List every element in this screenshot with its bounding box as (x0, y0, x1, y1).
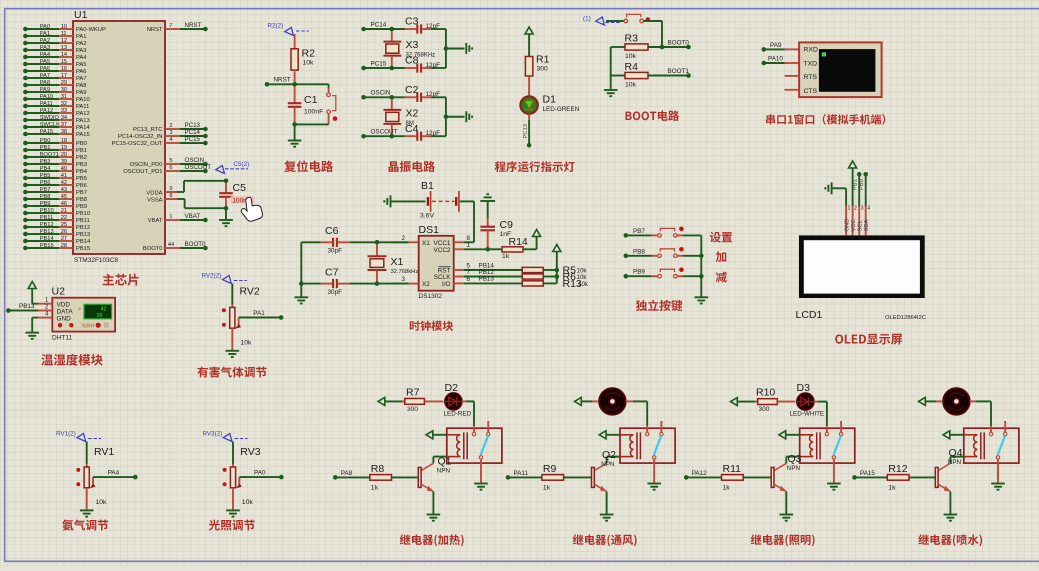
resistor R9 1k (506, 463, 592, 492)
svg-text:R4: R4 (625, 61, 639, 73)
svg-text:PA4: PA4 (108, 470, 120, 477)
svg-text:9: 9 (169, 186, 172, 192)
svg-text:PA15: PA15 (40, 129, 54, 135)
svg-text:X2: X2 (406, 107, 419, 119)
capacitor C2 12pF (405, 84, 446, 102)
relay contact pins (825, 421, 843, 483)
svg-text:RV3: RV3 (240, 446, 260, 458)
wire motor to relay 4 (970, 401, 991, 425)
crystal X3 32.768KHz (383, 31, 435, 68)
main chip title (103, 274, 139, 286)
U1 left pin 38 (PA15) (23, 129, 90, 138)
svg-text:PA12: PA12 (76, 111, 90, 117)
svg-text:VBAT: VBAT (185, 213, 201, 220)
svg-text:PB11: PB11 (40, 215, 54, 221)
svg-text:RV2(2): RV2(2) (202, 273, 222, 280)
pull-up rail power terminal (553, 245, 561, 284)
svg-text:10k: 10k (303, 60, 315, 67)
svg-text:C9: C9 (500, 219, 514, 231)
svg-text:PA12: PA12 (692, 470, 707, 477)
relay switch contact (481, 436, 488, 455)
virtual terminal serial window (785, 42, 882, 97)
svg-text:SWCLK: SWCLK (40, 122, 60, 128)
svg-text:PA10: PA10 (40, 94, 54, 100)
run indicator title (495, 161, 575, 172)
svg-text:PB13: PB13 (479, 276, 495, 283)
svg-text:NPN: NPN (787, 465, 801, 472)
svg-text:PB1: PB1 (852, 179, 858, 190)
U1 pin 9 VDDA wire (146, 181, 226, 197)
DHT11 module title (41, 354, 102, 366)
resistor R5 10k (522, 265, 587, 277)
label plus key (716, 251, 727, 262)
svg-text:PB0: PB0 (859, 179, 865, 190)
U2 pin 1 VDD with power terminal (28, 282, 52, 304)
svg-text:22: 22 (61, 215, 67, 221)
svg-text:12pF: 12pF (426, 130, 441, 137)
ground under RV2 (226, 351, 240, 357)
relay contact pins (472, 421, 490, 483)
svg-text:31: 31 (61, 94, 67, 100)
U1 left pin 26 (PB13) (23, 229, 90, 238)
svg-text:SWDIO: SWDIO (40, 115, 60, 121)
DS1 pin 2 X1 (392, 235, 419, 242)
svg-text:PB14: PB14 (76, 239, 91, 245)
svg-text:3: 3 (169, 130, 172, 136)
svg-text:PB6: PB6 (40, 180, 51, 186)
U1 right pin 3 (PC14-OSC32_IN) (118, 129, 208, 140)
svg-text:PC13: PC13 (523, 124, 529, 139)
svg-text:PB0: PB0 (76, 141, 87, 147)
U1 left pin 15 (PA5) (23, 59, 86, 68)
relay coil box 继电器(通风) (620, 428, 675, 463)
OLED display LCD1 OLED12864I2C (796, 235, 926, 321)
ground under Q3 emitter (780, 515, 794, 521)
svg-text:Q4: Q4 (949, 447, 963, 459)
svg-text:RV2: RV2 (240, 286, 260, 298)
OLED SDA pin wire net PB0 (859, 172, 870, 235)
svg-text:OSCOUT: OSCOUT (185, 164, 212, 171)
svg-text:33: 33 (61, 108, 67, 114)
svg-text:5: 5 (169, 158, 172, 164)
svg-text:PA6: PA6 (76, 69, 87, 75)
svg-text:C4: C4 (405, 123, 419, 135)
svg-text:PB13: PB13 (76, 232, 90, 238)
svg-text:300: 300 (759, 406, 770, 413)
reset circuit title (284, 160, 333, 172)
svg-text:1k: 1k (888, 485, 896, 492)
svg-text:D3: D3 (797, 382, 811, 394)
svg-text:PB3: PB3 (76, 162, 87, 168)
power terminal into relay coil (779, 431, 800, 439)
svg-text:>: > (78, 307, 81, 313)
capacitor C9 1nF (480, 218, 513, 252)
U1 left pin 45 (PB8) (23, 194, 87, 203)
push button key PB8 (624, 247, 702, 258)
relay contact pins (646, 421, 664, 483)
svg-text:X3: X3 (406, 39, 419, 51)
svg-text:PA10: PA10 (76, 97, 90, 103)
svg-text:2: 2 (402, 235, 406, 242)
svg-text:43: 43 (61, 187, 67, 193)
U1 right pin 1 (VBAT) (148, 213, 208, 224)
node PA1 wire (239, 310, 284, 320)
svg-text:PA11: PA11 (514, 470, 529, 477)
svg-text:28: 28 (61, 243, 67, 249)
svg-text:X1: X1 (391, 256, 404, 268)
crystal X1 32.768kHz (368, 244, 419, 281)
svg-text:PA14: PA14 (76, 125, 91, 131)
U1 left pin 20 (BOOT1) (23, 152, 87, 161)
svg-text:40: 40 (61, 166, 67, 172)
U1 right pin 7 (NRST) (147, 22, 208, 33)
power terminal into relay coil (426, 431, 447, 439)
U1 left pin 41 (PB5) (23, 173, 87, 182)
power terminal left of R7 (378, 397, 402, 405)
svg-text:X2: X2 (422, 281, 430, 288)
svg-text:PC15: PC15 (371, 60, 387, 67)
svg-text:LCD1: LCD1 (796, 309, 823, 321)
push button key PB9 (624, 267, 702, 278)
svg-text:1k: 1k (502, 253, 510, 260)
svg-text:2: 2 (169, 123, 172, 129)
ground under Q2 emitter (600, 515, 614, 521)
svg-text:PA7: PA7 (40, 73, 50, 79)
svg-text:15: 15 (61, 59, 67, 65)
resistor R14 1k (488, 236, 537, 260)
relay coil (620, 432, 640, 459)
capacitor C5 (219, 179, 254, 220)
svg-text:1: 1 (169, 214, 172, 220)
svg-text:NPN: NPN (437, 467, 451, 474)
svg-text:10k: 10k (96, 499, 108, 506)
svg-text:PB15: PB15 (40, 243, 54, 249)
svg-text:LED-RED: LED-RED (444, 411, 472, 418)
svg-text:STM32F103C8: STM32F103C8 (74, 257, 118, 264)
sensor U2 DHT11 (52, 286, 116, 342)
svg-text:PB10: PB10 (40, 208, 54, 214)
svg-text:C5: C5 (233, 182, 247, 194)
svg-text:VCC2: VCC2 (433, 247, 450, 254)
relay coil (447, 432, 467, 459)
potentiometer RV3 10k (223, 442, 261, 510)
resistor R1 300 (525, 54, 549, 97)
LED D2 LED-RED (444, 382, 472, 418)
U1 left pin 29 (PA8) (23, 80, 86, 89)
svg-text:PC14-OSC32_IN: PC14-OSC32_IN (118, 134, 162, 140)
resistor R13 10k (522, 278, 589, 290)
svg-text:1k: 1k (543, 485, 551, 492)
keys ground rail (695, 235, 709, 303)
ground under X1 rail (295, 297, 309, 303)
U1 left pin 39 (PB3) (23, 159, 87, 168)
svg-text:12pF: 12pF (426, 91, 441, 98)
svg-text:PA7: PA7 (76, 76, 87, 82)
LED D1 LED-GREEN (520, 94, 579, 114)
push button key PB7 (624, 227, 702, 238)
svg-text:PB4: PB4 (40, 166, 51, 172)
svg-text:R10: R10 (756, 387, 775, 399)
svg-text:10: 10 (61, 24, 67, 30)
svg-text:OSCOUT: OSCOUT (371, 129, 398, 136)
svg-text:PA3: PA3 (40, 45, 50, 51)
svg-text:30pF: 30pF (328, 289, 343, 296)
svg-text:Q3: Q3 (788, 453, 802, 465)
svg-text:PA11: PA11 (40, 101, 53, 107)
svg-text:PA1: PA1 (76, 34, 87, 40)
svg-text:12pF: 12pF (426, 23, 441, 30)
DS1 pin 1 VCC2 (454, 242, 488, 249)
svg-text:VDDA: VDDA (146, 190, 162, 196)
svg-text:1: 1 (848, 206, 851, 212)
svg-text:Q2: Q2 (602, 449, 616, 461)
svg-text:21: 21 (61, 208, 67, 214)
svg-text:VCC1: VCC1 (433, 240, 450, 247)
svg-text:PB3: PB3 (40, 159, 51, 165)
svg-text:PB5: PB5 (76, 176, 87, 182)
svg-text:2: 2 (854, 206, 857, 212)
wire right rail of X2 (444, 97, 465, 136)
svg-text:OLED12864I2C: OLED12864I2C (885, 315, 926, 321)
svg-text:10k: 10k (625, 82, 637, 89)
svg-text:1k: 1k (723, 485, 731, 492)
svg-text:8: 8 (169, 193, 172, 199)
svg-text:VSSA: VSSA (147, 197, 163, 203)
svg-text:R14: R14 (509, 236, 528, 248)
DS1 pin 3 X2 (392, 276, 419, 283)
resistor R6 10k (522, 271, 587, 283)
svg-text:1: 1 (467, 242, 471, 249)
svg-text:R8: R8 (371, 463, 385, 475)
sideways ground left of OLED GND pin (825, 182, 831, 194)
svg-text:20: 20 (61, 152, 67, 158)
svg-text:RTS: RTS (804, 74, 818, 81)
svg-text:PC13: PC13 (185, 122, 201, 129)
svg-text:PA8: PA8 (76, 83, 87, 89)
svg-text:PB14: PB14 (40, 236, 54, 242)
LED D3 LED-WHITE (790, 382, 825, 418)
motor (943, 388, 971, 416)
svg-text:11: 11 (61, 31, 67, 37)
svg-text:32: 32 (61, 101, 67, 107)
relay module title 继电器(照明) (751, 534, 815, 546)
relay coil box 继电器(加热) (447, 428, 502, 463)
power terminal into relay coil (943, 431, 964, 439)
svg-text:10k: 10k (242, 499, 254, 506)
capacitor C8 12pF (405, 55, 446, 73)
svg-text:PB12: PB12 (76, 225, 90, 231)
power terminal left of motor 1 (575, 397, 599, 405)
wire motor to relay 2 (626, 401, 648, 425)
svg-text:R3: R3 (625, 33, 639, 45)
svg-text:R2(2): R2(2) (268, 23, 284, 30)
svg-text:LED-WHITE: LED-WHITE (790, 411, 825, 418)
ground under relay contact (991, 484, 1005, 490)
svg-text:3: 3 (402, 276, 406, 283)
svg-text:10k: 10k (578, 281, 589, 288)
U1 left pin 42 (PB6) (23, 180, 87, 189)
svg-text:BOOT0: BOOT0 (668, 39, 690, 46)
U1 left pin 10 (PA0) (23, 24, 106, 33)
svg-text:42: 42 (101, 306, 107, 312)
power terminal left of R10 (731, 398, 756, 406)
svg-text:12pF: 12pF (426, 62, 441, 69)
svg-text:3.6V: 3.6V (420, 213, 434, 220)
svg-text:NPN: NPN (601, 461, 615, 468)
BOOT circuit title (626, 110, 680, 121)
resistor R4 10k (611, 61, 691, 89)
svg-text:R12: R12 (888, 463, 907, 475)
wire right rail of X3 (444, 29, 465, 68)
svg-text:PA5: PA5 (76, 62, 87, 68)
svg-text:PB7: PB7 (76, 190, 87, 196)
svg-text:U2: U2 (52, 286, 66, 298)
svg-text:(1): (1) (583, 16, 591, 23)
svg-text:4: 4 (867, 206, 870, 212)
svg-text:OSCOUT_PD1: OSCOUT_PD1 (123, 169, 162, 175)
svg-text:14: 14 (61, 52, 67, 58)
U1 left pin 11 (PA1) (23, 31, 86, 40)
svg-text:C8: C8 (405, 55, 419, 67)
svg-text:RV1(2): RV1(2) (56, 431, 76, 438)
svg-text:PB1: PB1 (76, 148, 87, 154)
svg-text:26: 26 (97, 313, 103, 319)
svg-text:PA5: PA5 (40, 59, 50, 65)
voltage probe RV1(2) (56, 431, 101, 442)
svg-text:OSCIN_PD0: OSCIN_PD0 (130, 162, 163, 168)
svg-text:PA13: PA13 (76, 118, 90, 124)
OLED GND pin wire (832, 188, 851, 235)
serial window title (766, 114, 885, 125)
wire left rail of X1 (299, 242, 304, 296)
resistor R11 1k (684, 463, 771, 492)
svg-text:PA0: PA0 (254, 470, 266, 477)
capacitor C7 30pF (301, 266, 408, 296)
svg-text:C5(2): C5(2) (234, 161, 250, 168)
voltage probe RV2(2) (202, 273, 247, 284)
svg-text:PC14: PC14 (371, 21, 387, 28)
svg-text:10k: 10k (241, 340, 253, 347)
U1 right pin 2 (PC13_RTC) (133, 122, 208, 133)
resistor R3 10k (611, 33, 691, 61)
U1 left pin 37 (SWCLK) (23, 122, 90, 131)
svg-text:12: 12 (61, 38, 67, 44)
svg-text:19: 19 (61, 145, 67, 151)
svg-text:C3: C3 (405, 16, 419, 28)
ground right of X2 (466, 111, 472, 122)
svg-text:TXD: TXD (804, 60, 818, 67)
svg-text:B1: B1 (421, 180, 434, 192)
svg-text:30: 30 (61, 87, 67, 93)
svg-text:PB4: PB4 (76, 169, 88, 175)
svg-text:DS1302: DS1302 (419, 293, 443, 300)
resistor R2 10k (291, 34, 315, 82)
svg-text:PB13: PB13 (19, 303, 35, 310)
U1 left pin 18 (PB0) (23, 138, 87, 147)
svg-text:PB9: PB9 (76, 204, 87, 210)
svg-text:27: 27 (61, 236, 67, 242)
node PA4 wire (93, 470, 138, 480)
RV3 title (209, 520, 255, 531)
svg-text:R11: R11 (723, 463, 742, 475)
svg-text:PA8: PA8 (40, 80, 50, 86)
svg-text:PA12: PA12 (40, 108, 54, 114)
svg-text:PA2: PA2 (76, 41, 87, 47)
svg-text:X1: X1 (422, 240, 430, 247)
svg-text:34: 34 (61, 115, 67, 121)
svg-text:PC13_RTC: PC13_RTC (133, 127, 163, 133)
svg-text:PA4: PA4 (76, 55, 87, 61)
svg-text:NRST: NRST (185, 22, 202, 29)
DS1 pin 8 VCC1 (454, 235, 474, 242)
svg-text:7: 7 (169, 23, 172, 29)
svg-text:BOOT0: BOOT0 (143, 246, 163, 252)
U2 pin 4 GND (25, 311, 52, 338)
svg-text:PB8: PB8 (40, 194, 51, 200)
relay module title 继电器(加热) (400, 534, 464, 546)
svg-text:4: 4 (169, 137, 172, 143)
transistor Q1 NPN (418, 456, 451, 514)
svg-text:NPN: NPN (948, 459, 962, 466)
svg-text:46: 46 (61, 201, 67, 207)
U1 left pin 31 (PA10) (23, 94, 90, 103)
node PA10 wire (762, 56, 800, 66)
svg-text:PB9: PB9 (40, 201, 51, 207)
U2 pin 2 DATA net PB13 (6, 303, 52, 313)
node PC14 wire (361, 21, 405, 31)
relay module title 继电器(喷水) (918, 534, 982, 546)
svg-text:RV1: RV1 (94, 446, 114, 458)
OLED VCC pin wire with power terminal (849, 161, 858, 235)
svg-text:17: 17 (61, 73, 67, 79)
U1 left pin 19 (PB1) (23, 145, 87, 154)
U1 right pin 5 (OSCIN_PD0) (130, 157, 208, 168)
svg-text:25: 25 (61, 222, 67, 228)
clock module title (410, 321, 453, 331)
svg-text:R9: R9 (543, 463, 557, 475)
svg-text:PB10: PB10 (76, 211, 90, 217)
potentiometer RV1 10k (76, 442, 114, 510)
node PA0 wire (239, 470, 283, 480)
U1 left pin 33 (PA12) (23, 108, 90, 117)
svg-text:3: 3 (861, 206, 864, 212)
power terminal above R1 (525, 27, 533, 57)
svg-text:PA0-WKUP: PA0-WKUP (76, 27, 106, 33)
U1 left pin 28 (PB15) (23, 243, 90, 252)
svg-text:PC15: PC15 (185, 136, 201, 143)
svg-text:PA11: PA11 (76, 104, 89, 110)
transistor Q3 NPN (771, 453, 801, 514)
relay coil box 继电器(照明) (800, 428, 855, 463)
voltage probe R2(2) (268, 23, 310, 36)
svg-text:R7: R7 (406, 387, 420, 399)
svg-text:PC15-OSC32_OUT: PC15-OSC32_OUT (112, 141, 163, 147)
voltage probe (1) (583, 16, 620, 26)
U1 left pin 34 (SWDIO) (23, 115, 90, 124)
svg-text:CTS: CTS (804, 88, 818, 95)
U1 right pin 44 (BOOT0) (143, 241, 208, 252)
voltage probe RV3(2) (203, 431, 248, 442)
svg-text:PC14: PC14 (185, 129, 201, 136)
svg-text:PA15: PA15 (76, 132, 90, 138)
relay coil box 继电器(喷水) (964, 428, 1019, 463)
U1 right pin 4 (PC15-OSC32_OUT) (112, 136, 208, 147)
DS1 pin 5 RST net PB14 (454, 262, 523, 270)
svg-text:RV3(2): RV3(2) (203, 431, 223, 438)
relay switch contact (834, 436, 841, 455)
node PC13 wire under D1 (523, 114, 532, 148)
svg-text:Q1: Q1 (438, 456, 452, 468)
